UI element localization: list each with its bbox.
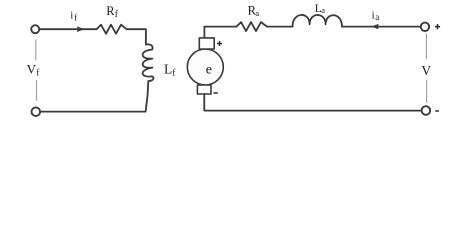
svg-text:e: e — [206, 62, 212, 77]
plus motor top — [217, 41, 222, 46]
svg-text:a: a — [255, 8, 259, 18]
svg-text:V: V — [421, 63, 431, 78]
wire La to terminal — [342, 26, 421, 28]
arrowhead ia — [371, 24, 378, 29]
Vf source line (light) — [35, 39, 38, 101]
motor brush bottom — [197, 85, 211, 94]
svg-text:a: a — [321, 5, 325, 15]
svg-text:a: a — [375, 12, 379, 22]
motor brush top — [199, 38, 214, 49]
minus terminal right — [435, 110, 439, 112]
svg-text:i: i — [70, 10, 73, 22]
resistor Rf — [97, 25, 127, 34]
terminal top-left (Vf +) — [31, 25, 39, 33]
terminal top-right (V +) — [421, 23, 429, 31]
wire motor top to Ra — [204, 27, 236, 38]
wire Lf to bottom — [40, 81, 148, 112]
terminal bottom-right (V -) — [422, 106, 431, 115]
inductor La — [293, 15, 343, 27]
svg-text:f: f — [74, 12, 77, 22]
V source line (light) — [425, 34, 427, 103]
arrowhead if — [77, 26, 84, 32]
terminal bottom-left (Vf -) — [32, 107, 41, 116]
resistor Ra — [237, 22, 268, 31]
wire Ra to La — [267, 26, 293, 28]
wire Rf to corner — [127, 29, 146, 44]
wire motor bottom — [204, 94, 421, 111]
plus terminal right — [435, 24, 440, 29]
svg-text:L: L — [164, 62, 172, 77]
motor armature circle e — [187, 49, 223, 85]
svg-text:V: V — [27, 62, 37, 77]
inductor Lf (coil) — [143, 44, 154, 81]
minus motor bottom — [214, 92, 218, 94]
wire field top — [39, 28, 96, 30]
